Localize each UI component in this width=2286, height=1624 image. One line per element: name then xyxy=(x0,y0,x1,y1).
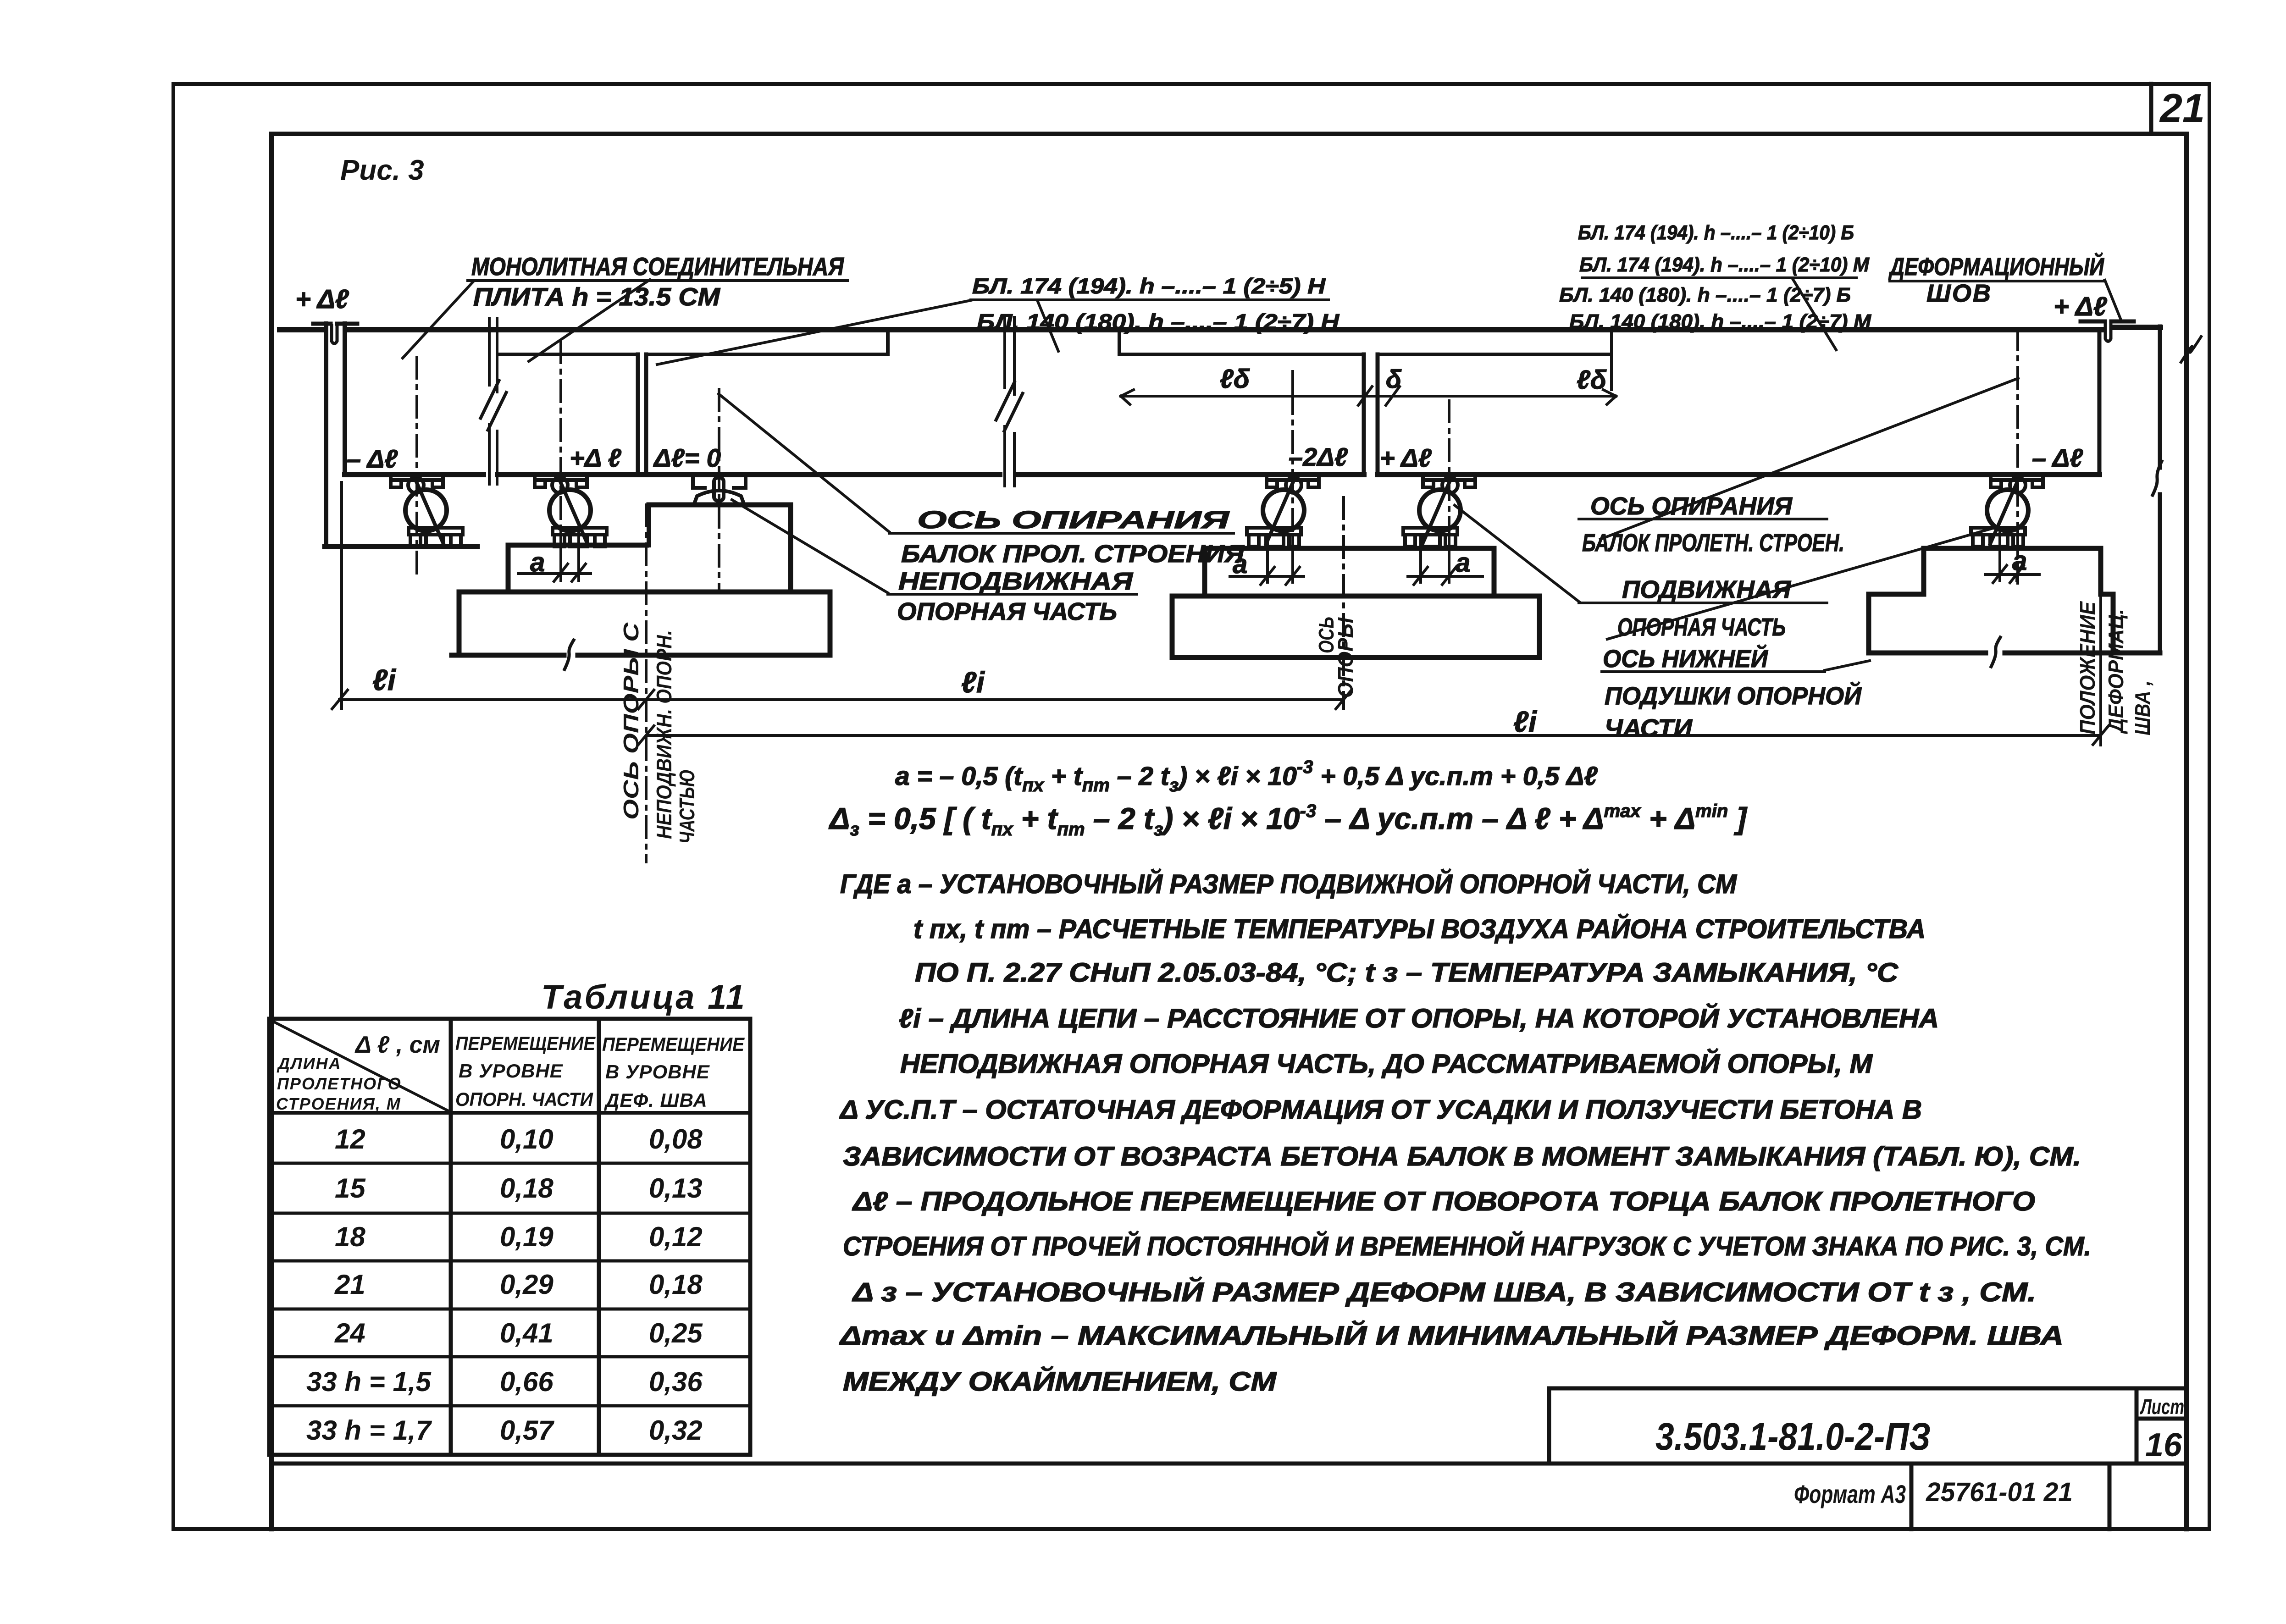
mid pier pedestal step edge xyxy=(647,505,651,545)
svg-text:0,32: 0,32 xyxy=(649,1415,703,1446)
axis of bearing B5 xyxy=(1448,401,1450,579)
table header bottom line xyxy=(269,1111,750,1115)
svg-text:Δℓ – ПРОДОЛЬНОЕ ПЕРЕМЕЩЕНИ: Δℓ – ПРОДОЛЬНОЕ ПЕРЕМЕЩЕНИЕ ОТ ПОВОРОТА … xyxy=(852,1187,2035,1216)
beam box 3 left edge xyxy=(644,354,648,475)
svg-text:Рис. 3: Рис. 3 xyxy=(340,155,424,186)
svg-text:21: 21 xyxy=(2159,85,2205,131)
inner drawing frame xyxy=(271,134,2186,1529)
soffit step verticals xyxy=(888,331,1119,354)
svg-text:ОПОРНАЯ ЧАСТЬ: ОПОРНАЯ ЧАСТЬ xyxy=(897,598,1117,625)
lb extension at right cut xyxy=(1610,333,1613,390)
svg-text:0,19: 0,19 xyxy=(500,1221,554,1252)
axis of mid pier xyxy=(645,505,648,862)
projection line at right joint xyxy=(2099,555,2102,745)
right abutment footing xyxy=(1869,548,2113,653)
svg-text:25761-01 21: 25761-01 21 xyxy=(1926,1477,2073,1507)
table row line 5 xyxy=(269,1355,750,1359)
axis of bearing B1 xyxy=(415,357,418,577)
mid pier pedestal upper step xyxy=(649,505,791,592)
format cell divider 2 xyxy=(2108,1464,2112,1529)
svg-text:ОПОРНАЯ ЧАСТЬ: ОПОРНАЯ ЧАСТЬ xyxy=(1617,613,1786,641)
a-dimension at mid pier: extensions xyxy=(561,532,579,580)
frame squiggle mark xyxy=(2181,337,2201,362)
left deformation joint curb caps xyxy=(313,322,357,326)
svg-text:ОПОРН. ЧАСТИ: ОПОРН. ЧАСТИ xyxy=(455,1088,593,1110)
beam length dimension line lb xyxy=(1121,395,1616,398)
dim tick at right joint on line C xyxy=(2093,726,2109,745)
svg-text:СТРОЕНИЯ ОТ ПРОЧЕЙ ПОСТОЯНН: СТРОЕНИЯ ОТ ПРОЧЕЙ ПОСТОЯННОЙ И ВРЕМЕННО… xyxy=(843,1231,2091,1261)
svg-text:+ Δℓ: + Δℓ xyxy=(2054,292,2108,321)
svg-text:ОСЬ ОПИРАНИЯ: ОСЬ ОПИРАНИЯ xyxy=(1590,492,1793,520)
lb right arrow xyxy=(1603,390,1616,404)
deck top slab line xyxy=(280,327,2160,330)
svg-text:Δℓ= 0: Δℓ= 0 xyxy=(653,443,721,472)
leader left osj opiranija label to bearing B3 xyxy=(719,394,889,532)
svg-text:a: a xyxy=(2012,546,2027,576)
movable bearing B4 left on pier 2 (mirrored) xyxy=(1247,475,1319,547)
svg-text:0,29: 0,29 xyxy=(500,1269,554,1300)
svg-text:ℓi – ДЛИНА ЦЕПИ – РАССТОЯН: ℓi – ДЛИНА ЦЕПИ – РАССТОЯНИЕ ОТ ОПОРЫ, Н… xyxy=(899,1003,1939,1033)
a-dimension right abutment: extensions xyxy=(2000,532,2017,580)
fixed bearing B1 on left abutment xyxy=(391,475,463,547)
leader from monolithic slab label to span1 xyxy=(403,281,474,358)
svg-text:БЛ. 174 (194). h –....– 1 (2÷5: БЛ. 174 (194). h –....– 1 (2÷5) Н xyxy=(972,274,1326,298)
svg-text:СТРОЕНИЯ, М: СТРОЕНИЯ, М xyxy=(276,1094,401,1113)
beam box D right edge at pier 2 xyxy=(1362,354,1366,475)
svg-text:ПЕРЕМЕЩЕНИЕ: ПЕРЕМЕЩЕНИЕ xyxy=(602,1033,745,1055)
svg-text:ОПОРЫ: ОПОРЫ xyxy=(1334,617,1357,698)
mid pier footing xyxy=(452,592,830,655)
svg-text:ОСЬ НИЖНЕЙ: ОСЬ НИЖНЕЙ xyxy=(1603,644,1768,673)
svg-text:ПО П. 2.27 СНиП 2.05.03-8: ПО П. 2.27 СНиП 2.05.03-84, °С; t з – ТЕ… xyxy=(915,958,1899,988)
axis of bearing B2 xyxy=(559,342,562,579)
dimension line li span1 xyxy=(339,698,1344,701)
svg-text:Δmax и Δmin – МАКСИМАЛЬНЫЙ: Δmax и Δmin – МАКСИМАЛЬНЫЙ И МИНИМАЛЬНЫЙ… xyxy=(839,1320,2064,1351)
underline deformation joint xyxy=(1890,280,2105,282)
svg-text:В УРОВНЕ: В УРОВНЕ xyxy=(605,1061,710,1083)
svg-text:ОСЬ ОПИРАНИЯ: ОСЬ ОПИРАНИЯ xyxy=(917,506,1230,534)
leader podvizhnaja label to bearing B6 xyxy=(1607,528,1993,639)
dim tick at mid pier on line C xyxy=(638,726,654,745)
leader right osj opiranija label to bearing B6 xyxy=(1600,378,2018,539)
a-dimension pier2 right: line xyxy=(1408,575,1483,578)
break mark 1 between spans xyxy=(489,318,497,484)
svg-text:ℓi: ℓi xyxy=(1513,705,1537,738)
a-dimension pier2 left ticks xyxy=(1261,567,1300,585)
pier 2 pedestal xyxy=(1205,548,1494,596)
svg-text:21: 21 xyxy=(334,1269,365,1300)
svg-text:ДЕФОРМАЦ.: ДЕФОРМАЦ. xyxy=(2104,609,2128,735)
leader podvizhnaja label to bearing B5 xyxy=(1455,505,1579,602)
right deformation joint curb caps xyxy=(2081,320,2134,324)
svg-text:ШВА ,: ШВА , xyxy=(2131,680,2154,735)
svg-text:0,41: 0,41 xyxy=(500,1318,554,1348)
svg-text:a: a xyxy=(1456,548,1470,578)
svg-text:33 h = 1,7: 33 h = 1,7 xyxy=(306,1415,432,1446)
mid pier pedestal lower step xyxy=(508,545,647,592)
left deformation joint U channel xyxy=(332,326,337,344)
svg-text:ДЕФОРМАЦИОННЫЙ: ДЕФОРМАЦИОННЫЙ xyxy=(1888,252,2104,281)
svg-text:ЧАСТЬЮ: ЧАСТЬЮ xyxy=(675,769,699,844)
a-dimension pier2 left: extensions xyxy=(1268,534,1293,582)
svg-text:БЛ. 140 (180). h –....– 1 (2÷7: БЛ. 140 (180). h –....– 1 (2÷7) Н xyxy=(977,309,1339,334)
right approach wall xyxy=(2158,326,2162,653)
pier 2 footing xyxy=(1172,596,1539,657)
svg-text:24: 24 xyxy=(334,1318,365,1348)
svg-text:МЕЖДУ ОКАЙМЛЕНИЕМ, СМ: МЕЖДУ ОКАЙМЛЕНИЕМ, СМ xyxy=(843,1366,1277,1397)
axis of pier 2 xyxy=(1342,497,1345,708)
svg-text:0,08: 0,08 xyxy=(649,1124,703,1154)
svg-text:БЛ. 140 (180). h –....– 1 (2÷7: БЛ. 140 (180). h –....– 1 (2÷7) Б xyxy=(1559,284,1851,306)
leader from beam mark block to deck xyxy=(1037,300,1058,351)
a-dimension at mid pier: line xyxy=(519,572,591,575)
slab soffit line segments xyxy=(498,353,1611,356)
svg-text:ПОДУШКИ ОПОРНОЙ: ПОДУШКИ ОПОРНОЙ xyxy=(1605,681,1862,710)
right deformation joint U channel xyxy=(2105,323,2111,342)
svg-text:0,10: 0,10 xyxy=(500,1124,554,1154)
a-dimension pier2 right: extensions xyxy=(1421,534,1449,582)
underline fixed bearing xyxy=(888,593,1136,596)
svg-text:ℓi: ℓi xyxy=(961,666,985,699)
svg-text:БЛ. 174 (194). h –....– 1 (2÷1: БЛ. 174 (194). h –....– 1 (2÷10) Б xyxy=(1578,221,1854,244)
a-dimension right abutment: line xyxy=(1986,573,2039,576)
table outer box xyxy=(269,1019,750,1455)
leader osj nizhnej label to footing corner xyxy=(1825,661,1870,670)
a-dimension right abutment ticks xyxy=(1993,565,2024,583)
underline beam mark mid xyxy=(971,298,1328,301)
break mark 2 in middle span xyxy=(1005,317,1014,486)
a-dimension pier2 right ticks xyxy=(1414,567,1456,585)
svg-text:Лист: Лист xyxy=(2140,1395,2184,1419)
table column divider 2 xyxy=(597,1019,601,1455)
left abutment wall xyxy=(324,324,328,547)
svg-text:18: 18 xyxy=(335,1221,365,1252)
outer page border xyxy=(173,84,2209,1529)
svg-text:0,18: 0,18 xyxy=(649,1269,703,1300)
svg-text:12: 12 xyxy=(335,1124,365,1154)
title block band top line xyxy=(271,1462,2186,1466)
leader from monolithic slab label to pier joint xyxy=(529,280,650,361)
left abutment top surface xyxy=(325,544,477,549)
svg-text:t пх, t пт – РАСЧЕТНЫЕ ТЕМ: t пх, t пт – РАСЧЕТНЫЕ ТЕМПЕРАТУРЫ ВОЗДУ… xyxy=(913,914,1926,944)
svg-text:В УРОВНЕ: В УРОВНЕ xyxy=(459,1060,564,1082)
svg-text:ГДЕ a – УСТАНОВОЧНЫЙ РАЗМЕР: ГДЕ a – УСТАНОВОЧНЫЙ РАЗМЕР ПОДВИЖНОЙ ОП… xyxy=(840,869,1738,899)
svg-text:3.503.1-81.0-2-ПЗ: 3.503.1-81.0-2-ПЗ xyxy=(1655,1415,1931,1458)
underline lower cushion axis xyxy=(1602,670,1825,673)
svg-text:+Δ ℓ: +Δ ℓ xyxy=(570,443,622,472)
movable bearing B5 right on pier 2 (mirrored) xyxy=(1403,475,1475,547)
designation cell top xyxy=(1549,1388,2186,1464)
table row line 2 xyxy=(269,1212,750,1215)
right abutment pedestal xyxy=(1924,548,2101,594)
lb extension at beam D axis xyxy=(1291,371,1294,408)
mid pier footing break squiggle xyxy=(565,640,574,669)
axis of bearing B6 xyxy=(2016,328,2019,587)
svg-text:Δз = 0,5 [ ( tпх + tпт – 2 tз): Δз = 0,5 [ ( tпх + tпт – 2 tз) × ℓi × 10… xyxy=(828,801,1748,840)
svg-text:БАЛОК ПРОЛ. СТРОЕНИЯ: БАЛОК ПРОЛ. СТРОЕНИЯ xyxy=(901,540,1245,568)
svg-text:0,13: 0,13 xyxy=(649,1173,703,1204)
svg-text:ДЕФ. ШВА: ДЕФ. ШВА xyxy=(604,1089,708,1111)
svg-text:16: 16 xyxy=(2145,1427,2182,1464)
svg-text:БЛ. 140 (180). h –....– 1 (2÷7: БЛ. 140 (180). h –....– 1 (2÷7) М xyxy=(1569,310,1871,333)
table row line 3 xyxy=(269,1259,750,1263)
svg-text:Δ з – УСТАНОВОЧНЫЙ РАЗМЕР: Δ з – УСТАНОВОЧНЫЙ РАЗМЕР ДЕФОРМ ШВА, В … xyxy=(852,1277,2036,1307)
svg-text:ПЛИТА h = 13.5 СМ: ПЛИТА h = 13.5 СМ xyxy=(473,282,720,311)
svg-text:ПОЛОЖЕНИЕ: ПОЛОЖЕНИЕ xyxy=(2076,601,2099,735)
svg-text:Формат А3: Формат А3 xyxy=(1794,1480,1906,1508)
table row line 1 xyxy=(269,1162,750,1165)
leader from right beam mark block to deck xyxy=(1793,279,1836,350)
svg-text:–2Δℓ: –2Δℓ xyxy=(1289,442,1348,471)
axis of bearing B3 xyxy=(718,389,720,589)
svg-text:0,36: 0,36 xyxy=(649,1366,703,1397)
svg-text:НЕПОДВИЖН. ОПОРН.: НЕПОДВИЖН. ОПОРН. xyxy=(652,630,676,839)
a-dimension mid pier ticks xyxy=(554,564,586,581)
svg-text:НЕПОДВИЖНАЯ ОПОРНАЯ ЧАСТЬ,: НЕПОДВИЖНАЯ ОПОРНАЯ ЧАСТЬ, ДО РАССМАТРИВ… xyxy=(900,1049,1873,1079)
svg-text:ℓδ: ℓδ xyxy=(1577,365,1607,395)
axis of bearing B4 xyxy=(1291,392,1294,579)
right abutment footing bottom line xyxy=(1869,651,2160,656)
right footing break squiggle xyxy=(1991,637,2000,667)
svg-text:ДЛИНА: ДЛИНА xyxy=(277,1054,342,1073)
svg-text:0,66: 0,66 xyxy=(500,1366,554,1397)
right beam end edge xyxy=(2098,330,2102,475)
underline beam mark right xyxy=(1582,276,1856,279)
svg-text:Δ УС.П.Т – ОСТАТОЧНАЯ ДЕФОР: Δ УС.П.Т – ОСТАТОЧНАЯ ДЕФОРМАЦИЯ ОТ УСАД… xyxy=(839,1095,1922,1125)
svg-text:δ: δ xyxy=(1386,365,1402,393)
underline movable bearing xyxy=(1579,602,1827,604)
svg-text:0,18: 0,18 xyxy=(500,1173,554,1204)
svg-text:Δ ℓ , см: Δ ℓ , см xyxy=(354,1032,440,1058)
table column divider 1 xyxy=(449,1019,453,1455)
svg-text:ПРОЛЕТНОГО: ПРОЛЕТНОГО xyxy=(277,1074,402,1093)
rocker movable bearing B3 on mid pier upper step xyxy=(693,475,746,505)
svg-text:ℓi: ℓi xyxy=(372,663,396,696)
underline monolithic slab xyxy=(468,279,847,282)
fixed bearing B2 on mid pier xyxy=(535,475,607,547)
svg-text:МОНОЛИТНАЯ СОЕДИНИТЕЛЬНАЯ: МОНОЛИТНАЯ СОЕДИНИТЕЛЬНАЯ xyxy=(471,252,845,281)
beam box 1 left edge xyxy=(343,324,347,475)
leader left nepodvizhnaja label to pier xyxy=(732,500,888,593)
beam box E left edge at pier 2 xyxy=(1376,354,1380,475)
svg-text:– Δℓ: – Δℓ xyxy=(347,444,398,473)
list cell divider vertical xyxy=(2135,1388,2139,1464)
dimension line li total xyxy=(646,734,2101,737)
svg-text:ПЕРЕМЕЩЕНИЕ: ПЕРЕМЕЩЕНИЕ xyxy=(455,1033,596,1054)
svg-text:a = – 0,5 (tпх + tпт – 2 tз) ×: a = – 0,5 (tпх + tпт – 2 tз) × ℓi × 10-3… xyxy=(895,757,1598,795)
svg-text:ОСЬ ОПОРЫ С: ОСЬ ОПОРЫ С xyxy=(619,622,643,820)
right wall break squiggle xyxy=(2153,461,2162,495)
svg-text:ℓδ: ℓδ xyxy=(1220,364,1250,394)
beam box 2 right edge xyxy=(636,354,640,475)
table row line 4 xyxy=(269,1308,750,1311)
svg-text:БЛ. 174 (194). h –....– 1 (2÷1: БЛ. 174 (194). h –....– 1 (2÷10) М xyxy=(1579,254,1870,276)
movable bearing B6 on right abutment (mirrored) xyxy=(1971,475,2043,547)
dim tick at left joint xyxy=(332,690,348,709)
projection line at left joint xyxy=(340,482,343,708)
svg-text:БАЛОК ПРОЛЕТН. СТРОЕН.: БАЛОК ПРОЛЕТН. СТРОЕН. xyxy=(1582,529,1844,557)
list cell divider horizontal xyxy=(2137,1417,2186,1421)
svg-text:0,57: 0,57 xyxy=(500,1415,554,1446)
beam bottom line segments xyxy=(345,472,2099,477)
a-dimension pier2 left: line xyxy=(1230,575,1304,578)
svg-text:a: a xyxy=(530,547,545,577)
svg-text:33 h = 1,5: 33 h = 1,5 xyxy=(306,1366,432,1397)
leader from beam mark block to pier joint xyxy=(657,300,971,365)
svg-text:ЗАВИСИМОСТИ ОТ ВОЗРАСТА: ЗАВИСИМОСТИ ОТ ВОЗРАСТА БЕТОНА БАЛОК В М… xyxy=(843,1142,2081,1171)
svg-text:НЕПОДВИЖНАЯ: НЕПОДВИЖНАЯ xyxy=(898,568,1134,595)
svg-text:Таблица 11: Таблица 11 xyxy=(541,978,747,1016)
svg-text:15: 15 xyxy=(335,1173,366,1204)
leader from deformation joint label to right joint xyxy=(2105,280,2121,321)
format cell divider 1 xyxy=(1910,1464,1914,1529)
svg-text:ШОВ: ШОВ xyxy=(1926,280,1992,307)
table header diagonal xyxy=(271,1020,449,1111)
svg-text:0,25: 0,25 xyxy=(649,1318,703,1348)
dim tick at pier 2 on line A xyxy=(1336,690,1351,709)
svg-text:ПОДВИЖНАЯ: ПОДВИЖНАЯ xyxy=(1622,576,1792,603)
svg-text:+ Δℓ: + Δℓ xyxy=(295,284,349,314)
table row line 6 xyxy=(269,1404,750,1408)
underline axis of bearing support left xyxy=(889,532,1234,535)
sheet number box 21 xyxy=(2149,84,2153,134)
svg-text:0,12: 0,12 xyxy=(649,1221,703,1252)
svg-text:ЧАСТИ: ЧАСТИ xyxy=(1605,714,1693,742)
svg-text:– Δℓ: – Δℓ xyxy=(2032,443,2083,472)
underline axis of bearing support right xyxy=(1579,518,1827,520)
svg-text:+ Δℓ: + Δℓ xyxy=(1380,443,1432,472)
lb left arrow xyxy=(1121,390,1134,404)
gap ticks at pier 2 joint xyxy=(1358,387,1400,405)
dim tick at mid pier on line A xyxy=(638,690,654,709)
